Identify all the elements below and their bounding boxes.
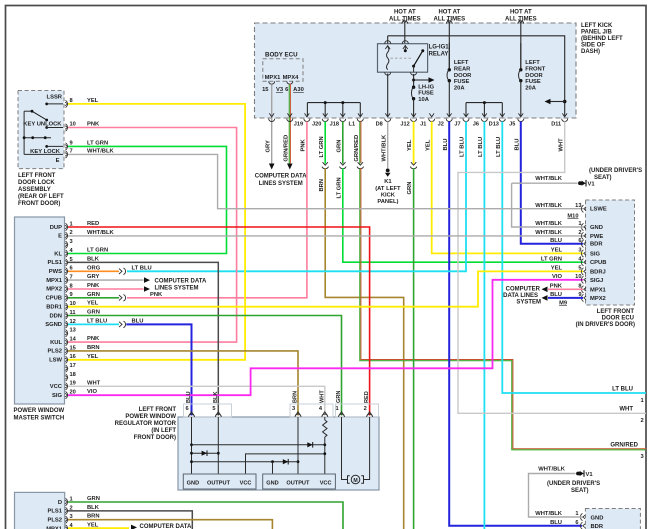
svg-text:YEL: YEL (425, 139, 431, 151)
svg-text:A30: A30 (293, 87, 304, 93)
label BLU (pin12 second) (132, 318, 144, 324)
label GRN (motor pin 1) (336, 391, 342, 403)
text: computer data lines system (bottom) (140, 524, 192, 529)
svg-text:3: 3 (578, 248, 581, 254)
master switch pin 2 E (58, 230, 73, 239)
label GRY (pin7) (87, 274, 99, 280)
label WHT/BLK (pin2) (87, 230, 115, 236)
wire BLU J2 to left rear door ECU BDR (449, 121, 582, 525)
label BRN (bottom 3) (87, 514, 100, 520)
svg-text:YEL: YEL (551, 266, 563, 272)
label: power window master switch (14, 408, 65, 421)
motor internal diode D1 (307, 442, 312, 448)
svg-text:GND: GND (591, 515, 604, 521)
svg-text:BLU: BLU (550, 520, 562, 526)
label BLU (J5) (514, 139, 520, 151)
label PNK (pin9 second) (150, 292, 163, 298)
svg-text:POWER WINDOW: POWER WINDOW (125, 414, 176, 420)
svg-text:LSWE: LSWE (590, 207, 607, 213)
connector on J18 column (340, 162, 347, 169)
fuse LH-IG 10A (412, 74, 435, 117)
svg-text:LSW: LSW (49, 358, 62, 364)
wire LT BLU J7 to master switch pin 6 (127, 121, 466, 271)
svg-text:GND: GND (187, 480, 199, 486)
label GRN/RED (284, 135, 290, 162)
pin 2 output (641, 418, 644, 424)
svg-text:VCC: VCC (50, 384, 63, 390)
svg-text:REAR: REAR (454, 67, 471, 73)
motor control module 2 (GND OUTPUT VCC) (263, 474, 336, 489)
svg-text:PWS: PWS (49, 269, 62, 275)
svg-text:ASSEMBLY: ASSEMBLY (18, 187, 51, 193)
svg-text:5: 5 (212, 406, 215, 412)
svg-text:(REAR OF LEFT: (REAR OF LEFT (18, 194, 64, 200)
wire GRN bottom switch D 1 to bottom exit (68, 502, 343, 529)
motor internal: GND2 drop (272, 462, 274, 474)
connector J18 at J/B edge (330, 113, 346, 127)
svg-text:LG-IG1: LG-IG1 (429, 45, 450, 51)
text: computer data lines system (door ECU) (503, 286, 541, 305)
svg-text:5: 5 (578, 266, 581, 272)
svg-text:(UNDER DRIVER'S: (UNDER DRIVER'S (589, 168, 642, 174)
svg-text:BRN: BRN (87, 514, 100, 520)
svg-text:BLU: BLU (514, 139, 520, 151)
svg-text:14: 14 (70, 337, 77, 343)
wire PNK door lock KEY UNLOCK to master switch KUL pin 14 (68, 128, 237, 343)
label WHT/BLK (V1) (535, 176, 563, 182)
motor M armature (342, 417, 370, 484)
rear door ECU pin 1 GND (535, 511, 603, 521)
svg-text:BDR: BDR (591, 524, 604, 529)
master switch pin 13 (nc) (65, 328, 76, 337)
svg-text:KUL: KUL (50, 340, 62, 346)
wire YEL door lock LSSR to master switch LSW pin 16 (68, 104, 245, 360)
svg-text:DOOR ECU: DOOR ECU (602, 316, 634, 322)
door ECU pin 8 MPX1 (550, 284, 607, 294)
svg-text:J6: J6 (473, 122, 479, 128)
svg-text:WHT/BLK: WHT/BLK (535, 230, 563, 236)
svg-text:YEL: YEL (407, 139, 413, 151)
wire WHT D11 to output pin 2 (458, 121, 646, 413)
svg-text:HOT AT: HOT AT (510, 10, 532, 16)
svg-text:GND: GND (266, 480, 278, 486)
connector L1 at J/B edge (349, 113, 364, 127)
label ORG (87, 265, 101, 271)
svg-text:ALL TIMES: ALL TIMES (505, 16, 537, 22)
motor internal diode D3 (283, 459, 288, 465)
label GRN (pin11) (87, 310, 100, 316)
svg-text:1: 1 (336, 406, 339, 412)
svg-text:WHT: WHT (319, 390, 325, 403)
motor internal wire H2 (GND1 to OUTPUT1) (192, 452, 219, 454)
label BRN (J20 lower) (319, 179, 325, 192)
svg-text:PNK: PNK (87, 336, 100, 342)
svg-text:J18: J18 (330, 122, 339, 128)
svg-text:DASH): DASH) (581, 49, 600, 55)
label LT BLU (D13) (496, 137, 502, 157)
door ECU pin 10 SIGJ (552, 274, 603, 284)
svg-text:2: 2 (641, 418, 644, 424)
svg-text:BDR: BDR (590, 242, 603, 248)
door lock pin 7 (65, 149, 73, 158)
svg-text:J7: J7 (454, 122, 460, 128)
master switch pin 14 KUL (50, 337, 77, 346)
label BRN (pin15) (87, 345, 100, 351)
connector J5 at J/B edge (509, 113, 524, 127)
left rear door ECU box (bottom right) (585, 509, 640, 529)
svg-text:1: 1 (575, 511, 578, 517)
svg-text:RELAY: RELAY (429, 51, 449, 57)
label KEY UNLOCK (23, 122, 62, 128)
svg-text:PNK: PNK (150, 292, 163, 298)
junction dot on D11 line (563, 100, 567, 104)
wire (J/B internal) relay coil feed to D11 (388, 36, 565, 117)
svg-text:PLS1: PLS1 (48, 509, 63, 515)
wire GRN J12 lower to bottom exit (413, 168, 415, 529)
svg-text:6: 6 (578, 238, 581, 244)
svg-text:ALL TIMES: ALL TIMES (389, 16, 421, 22)
svg-text:DOOR: DOOR (525, 73, 543, 79)
wire GRY (body ECU 15 to data lines) (269, 84, 275, 169)
svg-text:L1: L1 (349, 122, 356, 128)
label WHT/BLK (lower V1) (538, 467, 566, 473)
svg-text:YEL: YEL (87, 98, 99, 104)
svg-text:M9: M9 (559, 300, 567, 306)
svg-text:SGND: SGND (45, 322, 62, 328)
master switch pin 16 LSW (49, 354, 76, 363)
left front door lock assembly box (18, 91, 64, 169)
wire GRN/RED L1 to output pin 3 (360, 168, 647, 450)
relay switch contact (391, 41, 425, 75)
svg-text:MPX2: MPX2 (46, 287, 62, 293)
power feed HOT AT ALL TIMES #3 (505, 10, 537, 69)
wire WHT/BLK V1 vertical link (LSWE/GND) (512, 183, 583, 227)
ground K1 (at left kick panel) (375, 169, 401, 205)
connector J6 at J/B edge (473, 113, 488, 127)
master switch pin 6 PWS (49, 266, 73, 275)
pin 3 output (641, 454, 645, 460)
label: under driver seat (lower) (547, 481, 600, 494)
relay LG-IG1 box (378, 44, 450, 72)
label LT GRN (key lock) (87, 140, 108, 146)
svg-text:M10: M10 (567, 213, 578, 219)
svg-text:LEFT FRONT: LEFT FRONT (18, 173, 56, 179)
door ECU pin 9 MPX2 (550, 292, 606, 302)
svg-text:J20: J20 (312, 122, 321, 128)
svg-text:10: 10 (575, 274, 581, 280)
svg-text:FRONT DOOR): FRONT DOOR) (18, 201, 60, 207)
svg-text:LT BLU: LT BLU (496, 137, 502, 157)
svg-text:2: 2 (578, 230, 581, 236)
svg-text:GRN: GRN (87, 292, 100, 298)
label: under driver seat (upper) (589, 168, 642, 181)
label LT BLU (J6) (478, 137, 484, 157)
svg-text:DATA LINES: DATA LINES (503, 293, 538, 299)
label GRN (pin9) (87, 292, 100, 298)
svg-text:D11: D11 (551, 122, 561, 128)
master switch pin 1 DUP (50, 221, 73, 230)
connector J12 at J/B edge (400, 113, 416, 127)
svg-text:WHT/BLK: WHT/BLK (535, 511, 563, 517)
motor internal: VCC1 link (246, 454, 324, 474)
wire WHT/BLK to ground V1 (upper) (512, 182, 578, 184)
master switch pin 12 SGND (45, 319, 76, 328)
svg-text:COMPUTER DATA: COMPUTER DATA (140, 524, 192, 529)
svg-text:D: D (58, 500, 62, 506)
label WHT/BLK (D8) (381, 134, 387, 162)
master switch pin 10 BDR1 (46, 301, 76, 310)
connector body ECU lead at J/B edge (269, 113, 275, 121)
door lock switch mechanism (23, 103, 63, 155)
door ECU pin 4 CPUB (541, 256, 607, 266)
svg-text:LEFT KICK: LEFT KICK (581, 23, 613, 29)
svg-text:REGULATOR MOTOR: REGULATOR MOTOR (115, 421, 177, 427)
power feed HOT AT ALL TIMES #1 (389, 10, 421, 44)
svg-text:M: M (353, 478, 357, 484)
label LT GRN (pin4) (87, 248, 108, 254)
svg-text:YEL: YEL (87, 301, 99, 307)
label PNK (pin14) (87, 336, 100, 342)
label WHT (motor pin 4) (319, 390, 325, 403)
label LT BLU (J7) (460, 137, 466, 157)
svg-text:BRN: BRN (87, 345, 100, 351)
svg-text:GRY: GRY (266, 140, 272, 152)
master switch pin 20 SIG (52, 390, 76, 399)
svg-text:KICK: KICK (381, 192, 396, 198)
label PNK (key unlock) (87, 121, 100, 127)
power window master switch box (15, 217, 65, 404)
wire GRN J18 upper segment (342, 121, 344, 163)
label LT GRN (J18 lower) (336, 177, 342, 198)
ground V1 (under driver seat, upper) (578, 180, 595, 188)
wire GRN master switch DDN 11 to motor pin 1 (68, 316, 342, 416)
svg-text:COMPUTER DATA: COMPUTER DATA (155, 278, 207, 284)
wire LT GRN J18 to door ECU CPUB (343, 168, 583, 262)
label LT BLU (pin12) (87, 318, 107, 324)
label BLK (bottom 2) (87, 505, 100, 511)
svg-text:LT GRN: LT GRN (336, 177, 342, 198)
svg-text:10A: 10A (418, 97, 429, 103)
svg-text:OUTPUT: OUTPUT (286, 480, 310, 486)
svg-text:2: 2 (364, 406, 367, 412)
svg-text:PLS1: PLS1 (48, 260, 63, 266)
svg-text:MPX4: MPX4 (283, 75, 300, 81)
svg-text:BDRJ: BDRJ (590, 269, 606, 275)
motor internal: pin 6 to GND1 (190, 417, 193, 474)
motor pin 1 (336, 406, 345, 417)
motor control module 1 (GND OUTPUT VCC) (183, 474, 256, 489)
motor internal: pin 3 to OUTPUT2 (297, 417, 300, 474)
master switch pin 4 KL (54, 248, 73, 257)
svg-text:LINES SYSTEM: LINES SYSTEM (259, 181, 303, 187)
svg-text:KEY UNLOCK: KEY UNLOCK (23, 122, 62, 128)
wire BLK bottom switch PLS1 2 to bottom exit (68, 511, 192, 529)
svg-text:WHT/BLK: WHT/BLK (87, 149, 115, 155)
left front door switch box (bottom) (15, 492, 65, 529)
link A30 (293, 87, 304, 93)
svg-text:FUSE: FUSE (454, 79, 470, 85)
link M10 (567, 213, 578, 219)
svg-text:LEFT FRONT: LEFT FRONT (597, 309, 635, 315)
svg-text:WHT/BLK: WHT/BLK (381, 134, 387, 162)
connector on pin 12 wire (119, 321, 126, 328)
label: left front power window regulator motor (115, 407, 177, 441)
motor internal wire H1 (GND1 to VCC node) (192, 444, 325, 446)
svg-text:MASTER SWITCH: MASTER SWITCH (14, 415, 65, 421)
motor pin 3 (292, 406, 301, 417)
label RED (87, 221, 99, 227)
label YEL (J12) (407, 139, 413, 151)
master switch pin 19 VCC (50, 381, 76, 390)
door ECU pin 3 SIG (551, 248, 601, 258)
label BLU (motor pin 6) (186, 392, 192, 404)
svg-text:HOT AT: HOT AT (438, 10, 460, 16)
wire WHT master switch VCC 19 to motor pin 4 (68, 386, 325, 415)
master switch pin 3 (nc) (65, 239, 73, 248)
connector on pin 6 wire (119, 268, 126, 275)
door ECU pin 5 BDRJ (551, 266, 606, 276)
svg-text:BLK: BLK (87, 256, 100, 262)
svg-text:20A: 20A (454, 85, 465, 91)
label YEL (bottom 4) (87, 523, 99, 529)
left front door ECU box (586, 200, 635, 305)
motor pin 2 (364, 406, 373, 417)
label GRN (J12 lower) (407, 182, 413, 195)
svg-text:KEY LOCK: KEY LOCK (30, 149, 61, 155)
svg-text:J19: J19 (294, 122, 303, 128)
label YEL (pin10) (87, 301, 99, 307)
svg-text:YEL: YEL (87, 523, 99, 529)
link M9 (559, 300, 567, 306)
svg-text:SEAT): SEAT) (571, 488, 589, 494)
bottom switch pin 2 PLS1 (48, 505, 73, 514)
wire LT BLU J6 to bottom exit (483, 121, 485, 529)
svg-text:V1: V1 (588, 182, 596, 188)
wire YEL master switch BDR1 10 to door ECU BDRJ (68, 271, 583, 306)
master switch pin 8 MPX2 (46, 283, 72, 292)
svg-text:GRN: GRN (87, 496, 100, 502)
svg-text:BLK: BLK (213, 392, 219, 404)
svg-text:SEAT): SEAT) (594, 175, 612, 181)
wire BLU J5 to door ECU BDR (521, 121, 583, 243)
body ECU pin V3 6 (MPX4) (276, 81, 293, 93)
svg-text:(BEHIND LEFT: (BEHIND LEFT (581, 36, 623, 42)
motor internal wire H3 (GND1 to GND2/OUTPUT2) (192, 460, 299, 463)
wire LT GRN door lock KEY LOCK to master switch KL pin 4 (68, 146, 227, 253)
door ECU pin 2 PWE (535, 230, 603, 240)
wire LT BLU stub master switch SGND 12 (68, 323, 119, 325)
svg-text:SIG: SIG (590, 251, 600, 257)
svg-text:WHT/BLK: WHT/BLK (535, 176, 563, 182)
svg-text:(UNDER DRIVER'S: (UNDER DRIVER'S (547, 481, 600, 487)
connector on pin 9 wire (119, 295, 126, 302)
label LT BLU at output 1 (612, 386, 633, 392)
svg-text:DDN: DDN (49, 313, 62, 319)
wire WHT/BLK rear ECU GND to ground V1 (lower) (529, 474, 583, 518)
body ECU U1 dashed box (263, 52, 303, 82)
text: computer data lines system (below body ECU) (255, 174, 307, 187)
relay coil (385, 36, 391, 75)
motor internal: pin 5 to OUTPUT1 (217, 417, 220, 474)
svg-text:BRN: BRN (293, 391, 299, 403)
motor connector outline (pins 1,2) (336, 404, 379, 417)
svg-text:6: 6 (575, 520, 578, 526)
svg-text:LEFT: LEFT (525, 60, 540, 66)
svg-text:VCC: VCC (320, 480, 332, 486)
power feed HOT AT ALL TIMES #2 (434, 10, 466, 69)
door lock pin 9 (65, 141, 73, 151)
bus J7-J6-D13 (J/B internal link) (466, 103, 502, 117)
svg-text:BLU: BLU (186, 392, 192, 404)
wire WHT/BLK door lock E to door ECU LSWE / ground V1 (68, 154, 583, 208)
motor connector outline (pins 3,4) (290, 404, 333, 417)
svg-text:POWER WINDOW: POWER WINDOW (14, 408, 65, 414)
svg-text:LT GRN: LT GRN (541, 256, 562, 262)
wire BRN master switch PLS2 15 to motor pin 3 (68, 351, 298, 416)
svg-text:E: E (58, 234, 62, 240)
label: left kick panel J/B (581, 23, 623, 55)
svg-text:COMPUTER DATA: COMPUTER DATA (255, 174, 307, 180)
wire BRN J20 lower segment to bottom exit (325, 168, 404, 529)
svg-text:PLS2: PLS2 (48, 349, 63, 355)
wire GRN stub master switch CPUB 9 (68, 297, 119, 299)
wire GRY master switch MPX1 7 to data lines (68, 277, 150, 283)
master switch pin 9 CPUB (46, 292, 73, 301)
wire GRN/RED (body ECU V3 to data lines) (287, 84, 293, 170)
pin 1 output (641, 398, 645, 404)
svg-text:6: 6 (186, 406, 189, 412)
master switch pin 7 MPX1 (46, 275, 72, 284)
svg-text:J1: J1 (420, 122, 426, 128)
label: left front door lock assembly (18, 173, 64, 207)
connector on J12 column (410, 162, 417, 169)
label KEY LOCK (30, 149, 61, 155)
svg-text:DOOR LOCK: DOOR LOCK (18, 180, 55, 186)
connector J7 at J/B edge (454, 113, 469, 127)
bottom switch pin 1 D (58, 496, 73, 505)
svg-text:YEL: YEL (551, 248, 563, 254)
motor internal diode D2 (202, 450, 207, 456)
label YEL (J1) (425, 139, 431, 151)
svg-text:RED: RED (364, 391, 370, 403)
door lock pin 10 (65, 122, 76, 132)
wire PNK master switch MPX2 8 to data lines (68, 286, 150, 292)
svg-text:MPX1: MPX1 (265, 75, 282, 81)
svg-text:FUSE: FUSE (418, 91, 434, 97)
svg-text:WHT: WHT (558, 138, 564, 152)
wire BRN bottom switch PLS2 3 to bottom exit (68, 520, 272, 529)
wire PNK door ECU MPX1 from data lines (542, 287, 584, 293)
junction dots on J19-L1 bus (324, 101, 345, 104)
fuse left rear door 20A (447, 43, 472, 117)
svg-text:13: 13 (575, 203, 581, 209)
connector on L1 column (357, 162, 364, 169)
svg-text:D13: D13 (489, 122, 499, 128)
wire BLU master switch SGND 12 to motor pin 6 (126, 324, 191, 415)
svg-text:GRY: GRY (87, 274, 99, 280)
svg-text:VCC: VCC (240, 480, 252, 486)
svg-text:18: 18 (70, 372, 76, 378)
svg-text:PANEL J/B: PANEL J/B (581, 29, 612, 35)
motor pin 4 (319, 406, 328, 417)
bottom switch pin 4 MPX1 (46, 523, 73, 529)
svg-text:ALL TIMES: ALL TIMES (434, 16, 466, 22)
svg-text:LT BLU: LT BLU (87, 318, 107, 324)
svg-text:E: E (56, 158, 60, 164)
label WHT (D11) (558, 138, 564, 152)
svg-text:MPX1: MPX1 (46, 278, 63, 284)
svg-text:DOOR: DOOR (454, 73, 472, 79)
